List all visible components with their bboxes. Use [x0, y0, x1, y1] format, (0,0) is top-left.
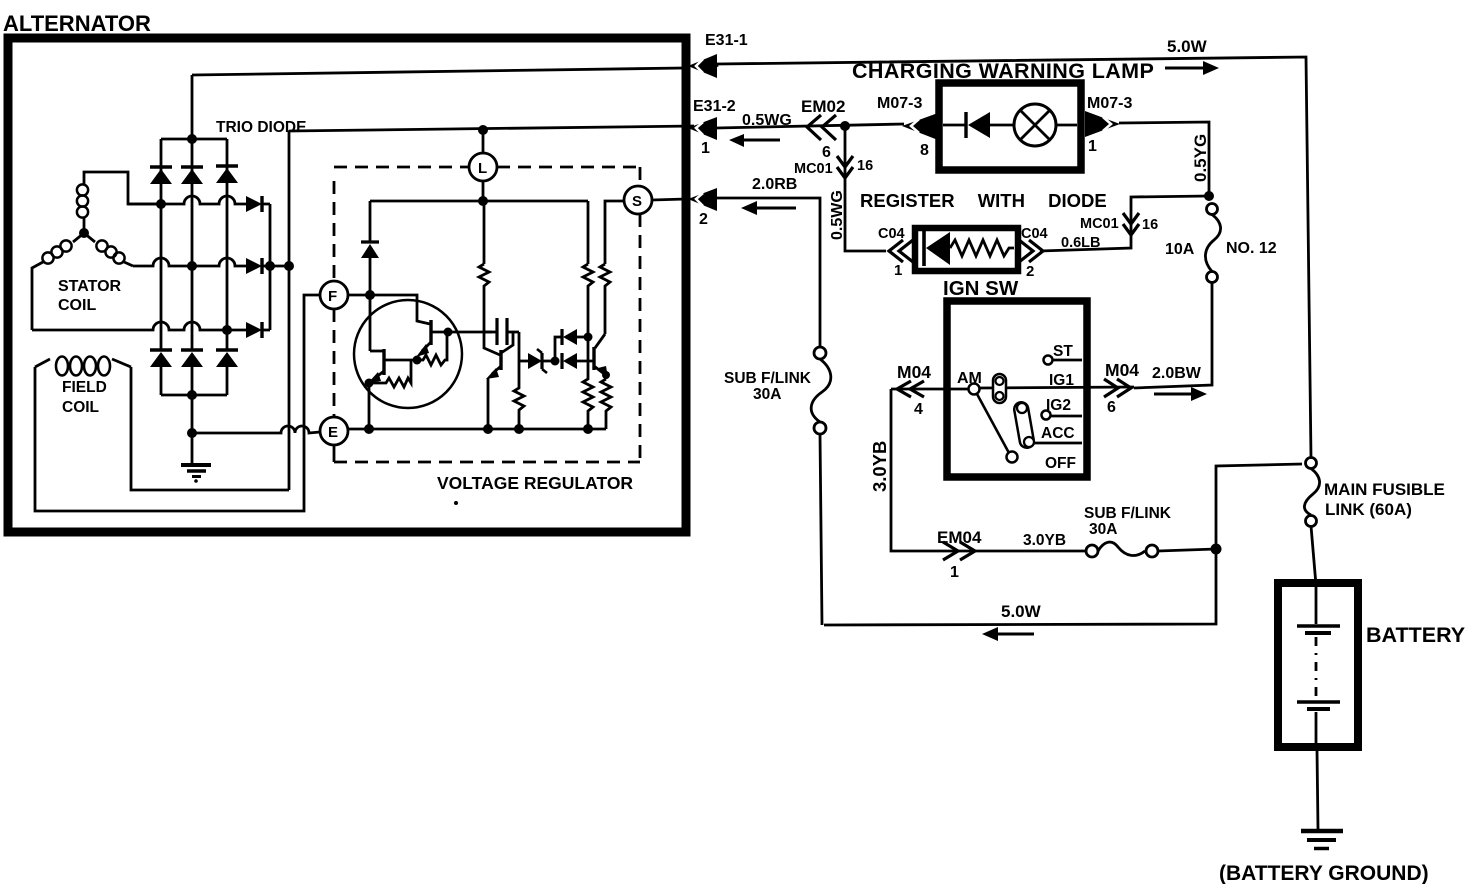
svg-text:8: 8	[920, 142, 929, 159]
svg-text:AM: AM	[957, 370, 982, 387]
wire: trio diode top bus	[161, 138, 227, 141]
svg-text:2.0BW: 2.0BW	[1152, 365, 1202, 382]
wire: middle column from rail	[483, 201, 486, 264]
node: E rail joints	[364, 424, 374, 434]
resistor R1 (Q1 base-emitter)	[371, 360, 411, 387]
alternator enclosure box	[8, 38, 686, 532]
terminal L	[469, 130, 497, 201]
node: phase1-col1	[156, 199, 166, 209]
svg-text:S: S	[632, 193, 642, 210]
wire: phase 3 row	[32, 322, 246, 330]
battery cells	[1297, 587, 1340, 744]
wire: negative bus	[161, 394, 227, 397]
svg-text:2.0RB: 2.0RB	[752, 176, 797, 193]
wire: 0.5YG	[1119, 122, 1209, 196]
connector C04 pin 1	[878, 226, 913, 279]
node: output bus phase2	[265, 261, 275, 271]
connector MC01 pin 16 (right)	[1080, 213, 1158, 235]
wire: regulator top rail	[370, 200, 588, 203]
rectifier diode D8 (positive, phase2)	[246, 258, 270, 274]
transistor Q1	[368, 349, 384, 383]
node: Q4 emitter	[602, 371, 610, 379]
wire: junction riser to main fusible link	[1216, 464, 1302, 549]
wire: E rail	[348, 428, 606, 431]
svg-text:C04: C04	[1021, 226, 1048, 242]
node: D12 output	[584, 333, 593, 342]
svg-text:1: 1	[1088, 138, 1097, 155]
wire: Q1 base line	[385, 359, 417, 362]
lamp	[1014, 104, 1077, 146]
resistor R9 (register)	[950, 240, 1014, 256]
svg-text:1: 1	[894, 262, 902, 279]
connector E31-1	[688, 32, 748, 78]
rectifier diode D9 (positive, phase3)	[246, 322, 270, 338]
terminal F	[320, 281, 348, 309]
resistor R3	[479, 264, 489, 332]
wire: output link to B+ riser	[270, 265, 289, 268]
wire: 2.0RB lower drop to 5.0W	[820, 434, 822, 625]
register with diode box	[915, 228, 1018, 271]
svg-text:0.5YG: 0.5YG	[1191, 134, 1210, 182]
wire: phase 2 row	[133, 258, 246, 266]
node: L terminal tap	[478, 125, 488, 135]
node: phase2-col2	[187, 261, 197, 271]
node: Q2 collector line	[444, 328, 453, 337]
connector M04 pin 6	[1104, 360, 1139, 416]
stator winding phase B coil	[32, 233, 84, 330]
capacitor C1	[484, 318, 519, 345]
wire: field coil left leg to F	[35, 295, 320, 511]
svg-text:6: 6	[822, 144, 831, 161]
svg-text:0.6LB: 0.6LB	[1061, 235, 1101, 251]
battery box	[1278, 583, 1358, 747]
node: 10A fuse top	[1204, 191, 1214, 201]
wire: Q1 emitter to E rail	[368, 383, 371, 429]
svg-text:IGN SW: IGN SW	[943, 277, 1019, 300]
svg-text:COIL: COIL	[62, 399, 99, 416]
svg-text:30A: 30A	[1089, 521, 1117, 538]
wire: fusible link to battery	[1311, 526, 1316, 585]
wire: rectifier output bus	[269, 204, 272, 330]
stator winding phase C coil	[84, 233, 133, 266]
resistor R4	[514, 361, 524, 429]
svg-text:6: 6	[1107, 399, 1116, 416]
svg-text:L: L	[478, 160, 487, 177]
terminal E	[320, 417, 348, 445]
trio diode D3	[216, 166, 238, 183]
diode D13 (lamp)	[943, 112, 1014, 138]
svg-text:COIL: COIL	[58, 297, 96, 314]
rectifier column 2 wire	[191, 139, 194, 350]
svg-text:ACC: ACC	[1041, 425, 1075, 442]
svg-text:ST: ST	[1053, 343, 1073, 360]
switch contact bar 1	[993, 374, 1006, 403]
terminal S	[624, 186, 652, 214]
svg-text:MC01: MC01	[794, 161, 833, 177]
wire: 0.6LB to 10A fuse	[1040, 196, 1209, 251]
wire: phase 1 row	[128, 196, 246, 204]
fuse MAIN FUSIBLE LINK (60A)	[1304, 458, 1444, 527]
node: rail-L junction	[478, 196, 488, 206]
svg-text:FIELD: FIELD	[62, 379, 107, 396]
svg-text:0.5WG: 0.5WG	[829, 190, 846, 240]
svg-text:SUB F/LINK: SUB F/LINK	[1084, 505, 1172, 522]
wire: right column A from rail	[587, 201, 590, 264]
wire: trio diode feed vertical	[191, 75, 194, 139]
rectifier diode D6 (negative, col3)	[216, 350, 238, 395]
wire: 2.0BW	[1134, 282, 1212, 388]
transistor Q2	[370, 295, 492, 357]
wire: 5.0W top run	[717, 57, 1311, 458]
wire: 0.5WG lamp feed	[716, 124, 904, 128]
trio diode D1	[150, 167, 172, 184]
connector EM02 pin 6	[801, 97, 845, 161]
connector MC01 pin 16 (left)	[794, 156, 873, 178]
svg-text:OFF: OFF	[1045, 455, 1076, 472]
rectifier diode D5 (negative, col2)	[181, 350, 203, 395]
trio diode D2	[181, 167, 203, 184]
wire: L/E31-2 feed	[289, 126, 694, 131]
node: battery feed junction	[1211, 544, 1222, 555]
connector E31-2	[688, 98, 736, 157]
wire: bottom 5.0W run	[824, 549, 1216, 625]
resistor R2	[419, 333, 447, 365]
svg-text:ALTERNATOR: ALTERNATOR	[3, 11, 151, 36]
switch contact bar 2	[1013, 401, 1035, 449]
resistor R6	[600, 264, 610, 334]
svg-text:E: E	[328, 424, 338, 441]
svg-text:NO. 12: NO. 12	[1226, 240, 1277, 257]
svg-text:REGISTER WITH DIODE: REGISTER WITH DIODE	[860, 190, 1107, 211]
svg-text:M04: M04	[897, 362, 931, 382]
svg-text:(BATTERY GROUND): (BATTERY GROUND)	[1219, 862, 1429, 884]
contact AM	[957, 370, 982, 395]
svg-text:VOLTAGE REGULATOR: VOLTAGE REGULATOR	[437, 473, 633, 493]
svg-text:M07-3: M07-3	[877, 95, 922, 112]
ground (battery)	[1301, 831, 1343, 849]
svg-text:5.0W: 5.0W	[1001, 602, 1042, 621]
node: warning lamp tap	[840, 121, 850, 131]
svg-text:3.0YB: 3.0YB	[1023, 532, 1066, 549]
connector C04 pin 2	[1019, 226, 1048, 280]
contact ACC	[1034, 425, 1082, 443]
wire: S to right column B	[605, 201, 624, 264]
fuse SUB F/LINK 30A (lower)	[1084, 505, 1216, 557]
field coil	[35, 357, 131, 376]
svg-text:BATTERY: BATTERY	[1366, 623, 1465, 647]
node: Q1 base / Q2 emitter	[413, 356, 422, 365]
resistor R8	[601, 379, 611, 429]
transistor Q3	[484, 332, 513, 429]
svg-text:C04: C04	[878, 226, 905, 242]
switch lever	[977, 394, 1018, 463]
direction arrow (0.5WG)	[729, 134, 780, 147]
resistor R7	[583, 337, 593, 429]
wire: ground drop	[191, 395, 194, 464]
diode D10 (regulator left)	[361, 242, 379, 351]
svg-text:TRIO DIODE: TRIO DIODE	[216, 119, 306, 136]
ground (alternator)	[181, 465, 211, 483]
connector M04 pin 4	[897, 362, 931, 418]
svg-text:2: 2	[1026, 263, 1034, 280]
diode D12 (upper branch)	[555, 329, 588, 361]
connector M07-3 pin 1	[1085, 111, 1120, 155]
diode D11	[562, 353, 594, 369]
diode D14 (register)	[924, 231, 950, 266]
svg-text:E31-1: E31-1	[705, 32, 748, 49]
svg-text:16: 16	[1142, 217, 1158, 233]
svg-text:SUB F/LINK: SUB F/LINK	[724, 370, 812, 387]
voltage regulator dashed box	[334, 167, 640, 462]
wire: battery to ground	[1317, 750, 1318, 829]
svg-text:M04: M04	[1105, 360, 1139, 380]
wire: left rail drop	[369, 201, 372, 242]
svg-text:STATOR: STATOR	[58, 278, 122, 295]
node: B+ riser junction	[284, 261, 294, 271]
svg-text:4: 4	[914, 401, 923, 418]
wire: MC01 drop from lamp tap	[845, 126, 886, 251]
wire: S terminal to connector 2	[652, 199, 686, 200]
svg-text:1: 1	[950, 564, 959, 581]
connector EM04 pin 1	[937, 528, 982, 581]
zener ZD1	[519, 349, 555, 373]
svg-text:LINK (60A): LINK (60A)	[1325, 500, 1412, 519]
node: zener junction	[551, 357, 560, 366]
wire: field coil right leg to B+ riser	[131, 367, 289, 490]
contact ST	[1044, 343, 1083, 365]
svg-text:E31-2: E31-2	[693, 98, 736, 115]
svg-text:MAIN FUSIBLE: MAIN FUSIBLE	[1324, 480, 1445, 499]
node: Q1 emitter	[365, 379, 374, 388]
svg-text:3.0YB: 3.0YB	[869, 441, 890, 492]
svg-text:2: 2	[699, 211, 708, 228]
svg-text:10A: 10A	[1165, 241, 1195, 258]
fuse SUB F/LINK 30A (upper)	[724, 347, 831, 434]
direction arrow (bottom 5.0W)	[982, 627, 1034, 641]
contact IG2	[1042, 397, 1083, 420]
svg-text:1: 1	[701, 140, 710, 157]
svg-text:0.5WG: 0.5WG	[742, 112, 792, 129]
svg-text:16: 16	[857, 158, 873, 174]
ignition switch box	[947, 301, 1087, 477]
svg-text:M07-3: M07-3	[1087, 95, 1132, 112]
stator winding phase A coil	[77, 172, 161, 233]
node: negative bus center	[187, 390, 197, 400]
node: phase3-col3	[222, 325, 232, 335]
direction arrow (2.0BW)	[1154, 387, 1207, 401]
connector M07-3 pin 8	[902, 113, 938, 159]
transistor Q4	[594, 334, 608, 379]
wire: F stub	[348, 294, 370, 297]
svg-text:F: F	[328, 288, 337, 305]
wire: 2.0RB drop	[716, 198, 820, 347]
scan speck	[454, 501, 458, 505]
svg-text:MC01: MC01	[1080, 216, 1119, 232]
connector E31 pin 2	[688, 176, 797, 228]
resistor R5	[583, 264, 593, 337]
svg-text:EM02: EM02	[801, 97, 845, 116]
wire: AM-IG1 through switch	[891, 388, 968, 391]
wire: B+ top wire to E31-1	[192, 68, 684, 75]
direction arrow (top 5.0W)	[1165, 61, 1219, 75]
node: E wire junction	[187, 428, 197, 438]
wire: E terminal to rectifier ground node (with hops)	[192, 426, 320, 433]
rectifier diode D7 (positive, phase1)	[246, 196, 270, 212]
svg-text:IG2: IG2	[1046, 397, 1071, 414]
rectifier column 1 wire	[160, 139, 163, 350]
wire: zener branch drop	[518, 332, 521, 361]
darlington circle	[354, 300, 462, 408]
wire: B+ riser	[288, 131, 291, 490]
wire: 3.0YB loop to EM04	[891, 389, 1086, 551]
node: F junction	[365, 290, 375, 300]
fuse 10A NO.12	[1165, 204, 1277, 283]
svg-text:5.0W: 5.0W	[1167, 37, 1208, 56]
direction arrow (2.0RB)	[741, 201, 796, 215]
stator coil Y center node	[79, 228, 89, 238]
rectifier diode D4 (negative, col1)	[150, 350, 172, 395]
rectifier column 3 wire	[226, 139, 229, 350]
node: trio diode top junction	[187, 134, 197, 144]
charging warning lamp box	[939, 83, 1081, 170]
svg-text:30A: 30A	[753, 386, 781, 403]
